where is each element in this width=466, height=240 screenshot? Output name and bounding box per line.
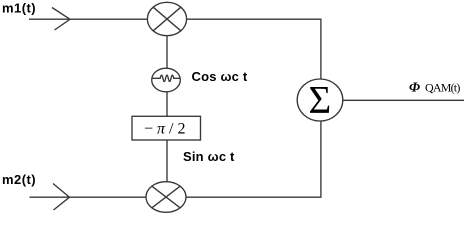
svg-text:QAM(t): QAM(t) [425, 81, 460, 95]
svg-text:Σ: Σ [309, 79, 332, 122]
svg-text:m1(t): m1(t) [2, 1, 36, 16]
svg-text:Φ: Φ [409, 81, 420, 96]
svg-text:− π / 2: − π / 2 [144, 121, 186, 138]
svg-text:Sin ωc t: Sin ωc t [183, 149, 235, 164]
svg-text:m2(t): m2(t) [2, 172, 36, 187]
svg-text:Cos ωc t: Cos ωc t [192, 69, 248, 84]
